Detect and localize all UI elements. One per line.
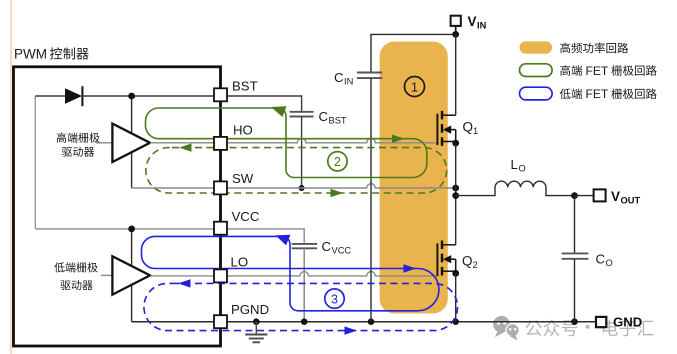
- svg-text:PGND: PGND: [231, 302, 269, 317]
- terminal VIN: [455, 26, 457, 35]
- pin HO: [214, 137, 227, 150]
- arrow on solid green loop (HO row, pointing right): [392, 135, 405, 144]
- node: Q1 source: [452, 140, 459, 147]
- wire: PGND / ground rail: [227, 321, 596, 323]
- node: CIN/PGND junction: [368, 318, 375, 325]
- svg-text:HO: HO: [233, 123, 253, 138]
- node: CO / GND junction: [571, 318, 578, 325]
- node: CBST/SW junction: [299, 185, 305, 191]
- node: Q2 source / PGND junction: [452, 318, 459, 325]
- wire: Q2 source to ground rail: [455, 273, 457, 321]
- bootstrap diode D1: [65, 88, 82, 104]
- svg-text:IN: IN: [344, 77, 353, 87]
- wire: CO bottom to GND rail: [574, 259, 576, 322]
- svg-text:FET: FET: [586, 64, 609, 78]
- wire: SW pin to switch node (with crossover hop): [227, 184, 456, 188]
- wire: CBST bottom to SW net: [301, 117, 303, 189]
- svg-text:IN: IN: [477, 21, 487, 31]
- arrow on dashed blue loop (top, pointing left): [178, 279, 191, 287]
- svg-text:C: C: [322, 239, 332, 254]
- svg-text:VCC: VCC: [232, 209, 260, 224]
- arrow on dashed green loop (top, pointing left): [179, 143, 192, 151]
- node: SW at Q1 source column: [452, 185, 459, 192]
- svg-text:FET: FET: [586, 87, 609, 101]
- high-side FET gate loop, return path (dashed green): [146, 148, 447, 193]
- wire: VIN top rail to CIN branch: [371, 34, 456, 72]
- wire: to VOUT terminal: [575, 195, 594, 197]
- capacitor CIN: [357, 72, 382, 74]
- wire: LO pin to Q2 gate (with crossover hops): [227, 272, 437, 276]
- low-side FET gate loop, charge path (solid blue): [142, 236, 439, 310]
- terminal VOUT: [594, 189, 606, 201]
- wire: Q1 source down to Q2 drain (switch node column): [455, 143, 457, 245]
- legend: orange = high-frequency power loop: [520, 41, 553, 53]
- svg-text:O: O: [606, 258, 613, 268]
- arrow on dashed blue loop (bottom, pointing right): [345, 326, 358, 334]
- svg-text:GND: GND: [613, 314, 642, 329]
- node: VOUT junction: [571, 192, 578, 199]
- low-side FET gate loop, return path (dashed blue): [144, 283, 458, 330]
- wire: VOUT down to CO: [574, 196, 576, 254]
- wire: diode anode segment: [35, 95, 66, 97]
- watermark chat-bubble icon (large bubble): [493, 316, 510, 337]
- pin VCC: [214, 222, 227, 235]
- wire: high-side driver output to HO pin: [150, 142, 214, 144]
- node: CVCC/PGND junction: [301, 318, 308, 325]
- arrow on solid blue loop (LO row, pointing right): [404, 264, 417, 273]
- wire: SW row to SW pin (left side): [132, 187, 215, 189]
- wire: CIN bottom to PGND rail: [370, 78, 372, 322]
- node: Q2 source: [452, 270, 459, 277]
- PWM controller box U1: [14, 67, 221, 346]
- pin SW: [214, 181, 227, 194]
- svg-text:1: 1: [411, 79, 418, 94]
- high-frequency power loop highlight (orange region): [380, 42, 448, 314]
- svg-text:Q: Q: [462, 254, 473, 269]
- loop number 2: [328, 152, 347, 171]
- node: VCC junction: [128, 226, 135, 233]
- watermark chat-bubble icon (small bubble): [506, 324, 519, 341]
- node: BST junction: [128, 93, 135, 100]
- svg-text:PWM: PWM: [14, 47, 47, 62]
- wire: diode cathode to BST pin: [82, 95, 214, 97]
- svg-text:L: L: [511, 157, 518, 172]
- inductor LO: [456, 181, 575, 195]
- transistor Q2 (low-side FET): [437, 241, 455, 277]
- loop number 3: [325, 289, 344, 308]
- svg-text:LO: LO: [231, 255, 249, 270]
- wire: VCC pin to CVCC top: [227, 229, 304, 244]
- pin LO: [214, 269, 227, 282]
- svg-text:BST: BST: [232, 78, 258, 93]
- wire: high-side driver input stub: [96, 142, 112, 144]
- terminal GND: [596, 317, 606, 327]
- legend: green = high-side FET gate loop: [520, 64, 553, 77]
- label: high-side gate driver: [57, 133, 100, 143]
- legend: blue = low-side FET gate loop: [520, 87, 553, 100]
- svg-text:C: C: [596, 252, 606, 267]
- svg-text:VCC: VCC: [332, 245, 352, 255]
- wire: CVCC bottom to PGND rail: [303, 248, 305, 321]
- capacitor CVCC: [292, 243, 317, 245]
- ground symbol: [245, 322, 267, 343]
- pin PGND: [214, 315, 227, 328]
- node: VIN junction: [452, 31, 459, 38]
- high-side FET gate loop, charge path (solid green): [146, 108, 427, 178]
- svg-text:3: 3: [331, 292, 338, 306]
- svg-text:C: C: [319, 109, 329, 124]
- wire: VIN to Q1 drain: [455, 34, 457, 115]
- wire: high-side driver supply rail (BST junction down to SW row): [131, 96, 133, 188]
- svg-text:BST: BST: [329, 115, 347, 125]
- op-amp style buffer: low-side gate driver: [112, 256, 150, 294]
- wire: low-side driver output to LO pin: [150, 275, 214, 277]
- wire: VCC row (left rail to VCC pin): [35, 228, 214, 230]
- wire: HO pin to Q1 gate (with crossover hops): [227, 139, 437, 143]
- wire: PGND row to PGND pin (left side): [132, 321, 215, 323]
- svg-text:1: 1: [473, 126, 478, 136]
- wire: low-side driver input stub: [101, 274, 112, 276]
- svg-text:SW: SW: [232, 171, 254, 186]
- wire: BST pin to bootstrap cap top: [227, 96, 302, 112]
- arrow on dashed green loop (bottom, pointing right): [331, 189, 344, 197]
- pin BST: [214, 88, 227, 101]
- arrow on solid blue loop (top corner, pointing up-left): [276, 235, 291, 246]
- label: low-side gate driver: [54, 262, 97, 272]
- capacitor CBST: [290, 111, 314, 113]
- capacitor CO: [562, 252, 589, 254]
- loop number 1: [405, 77, 425, 97]
- svg-text:2: 2: [334, 155, 341, 169]
- svg-text:OUT: OUT: [621, 195, 641, 205]
- wire: VCC left rail (vertical, diode anode to VCC row): [34, 96, 36, 229]
- op-amp style buffer: high-side gate driver: [112, 124, 150, 162]
- svg-text:2: 2: [473, 260, 478, 270]
- svg-text:O: O: [519, 164, 526, 174]
- svg-text:V: V: [468, 14, 477, 29]
- arrow on solid green loop (top corner, pointing up-left): [271, 106, 287, 117]
- node: switch node to inductor: [452, 192, 459, 199]
- svg-text:Q: Q: [463, 120, 474, 135]
- svg-text:V: V: [611, 189, 620, 204]
- wire: low-side driver supply rail (VCC junction down to PGND row): [131, 229, 133, 322]
- node: ground symbol junction: [253, 318, 260, 325]
- svg-text:C: C: [334, 70, 344, 85]
- watermark text 公众号 · 电子汇: [525, 320, 577, 337]
- transistor Q1 (high-side FET): [437, 111, 455, 146]
